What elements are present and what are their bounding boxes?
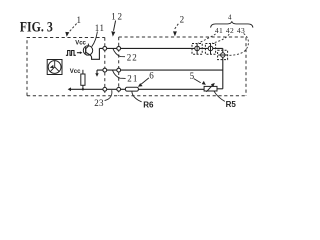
svg-text:6: 6 bbox=[149, 71, 154, 81]
svg-text:1: 1 bbox=[77, 15, 82, 25]
svg-text:23: 23 bbox=[94, 98, 104, 108]
svg-text:43: 43 bbox=[237, 26, 245, 35]
svg-text:22: 22 bbox=[127, 52, 138, 62]
svg-text:21: 21 bbox=[127, 73, 138, 83]
svg-text:12: 12 bbox=[111, 12, 124, 22]
svg-text:Vcc: Vcc bbox=[75, 41, 86, 47]
svg-text:R6: R6 bbox=[143, 100, 154, 109]
svg-text:2: 2 bbox=[180, 15, 185, 25]
svg-text:4: 4 bbox=[228, 14, 232, 22]
svg-text:Vcc: Vcc bbox=[70, 69, 81, 75]
svg-text:FIG. 3: FIG. 3 bbox=[20, 19, 53, 35]
svg-text:41: 41 bbox=[215, 26, 223, 35]
svg-text:42: 42 bbox=[226, 26, 234, 35]
svg-text:11: 11 bbox=[95, 23, 105, 33]
svg-text:R5: R5 bbox=[226, 100, 237, 109]
svg-text:5: 5 bbox=[190, 71, 195, 81]
